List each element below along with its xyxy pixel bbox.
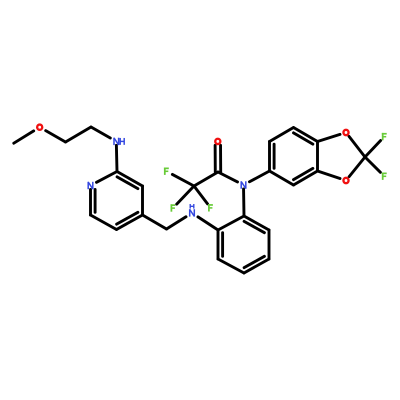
bond NH-phenyl C2 xyxy=(198,217,218,230)
double bond pyridine N1=C6 xyxy=(89,189,92,215)
bond carbonyl C-CF3 carbon xyxy=(194,172,218,186)
double bond pyridine N1=C6 (inner line) xyxy=(94,189,97,212)
atom N of NH (aniline) xyxy=(189,209,191,216)
atom N of NH (methoxyethylamino) xyxy=(113,138,115,145)
bond O-CF2 (dioxole upper) xyxy=(349,136,365,157)
bond phenyl C3-C4 xyxy=(218,259,244,273)
atom F (CF3 lower right) xyxy=(208,204,210,211)
bond CF2-F (lower) xyxy=(365,157,380,172)
double bond C=O carbonyl (line 1) xyxy=(219,145,222,172)
bond CH2-NH xyxy=(91,127,110,138)
bond O-C3a (dioxole lower) xyxy=(318,171,341,179)
double bond phenyl C4=C5 xyxy=(244,259,269,273)
double bond C=O carbonyl (line 2) xyxy=(214,145,217,172)
bond phenyl C5-C6 xyxy=(268,230,271,259)
double bond benzodioxole C3a=C4 (inner line) xyxy=(294,168,313,179)
double bond benzodioxole C5=C6 (inner line) xyxy=(273,144,276,168)
double bond benzodioxole C7=C7a xyxy=(294,128,318,142)
atom H of NH (methoxyethylamino) xyxy=(119,138,121,145)
atom F (CF3 lower left) xyxy=(170,204,172,211)
bond phenyl C1-amide N xyxy=(242,189,245,216)
bond pyridine C4-CH2 bridge xyxy=(143,215,167,229)
double bond pyridine C4=C5 (inner line) xyxy=(117,212,138,224)
double bond benzodioxole C5=C6 xyxy=(268,142,271,172)
double bond phenyl C6=C1 (inner line) xyxy=(244,221,264,232)
atom F (CF3 upper left) xyxy=(164,168,166,175)
atom N (amide nitrogen) xyxy=(240,181,242,188)
atom O (dioxole lower oxygen) xyxy=(343,178,348,183)
bond CH2-NH (aniline) xyxy=(167,217,187,229)
bond amide N-benzodioxole C5 xyxy=(250,171,270,182)
atom F (difluoro upper) xyxy=(382,133,384,140)
double bond phenyl C4=C5 (inner line) xyxy=(244,256,264,267)
double bond phenyl C2=C3 (inner line) xyxy=(221,233,224,257)
atom O (carbonyl oxygen) xyxy=(215,139,220,144)
bond CH3-O (methyl to ether oxygen) xyxy=(14,131,34,143)
bond benzodioxole C7a-C3a xyxy=(316,142,319,172)
double bond phenyl C6=C1 xyxy=(244,216,269,230)
atom F (difluoro lower) xyxy=(382,173,384,180)
atom N (pyridine ring nitrogen) xyxy=(87,182,89,189)
double bond pyridine C2=C3 (inner line) xyxy=(117,177,138,189)
bond C-F (CF3 upper left) xyxy=(172,174,194,186)
double bond benzodioxole C3a=C4 xyxy=(294,171,318,185)
bond phenyl C1-C2 xyxy=(218,216,244,230)
bond O-CH2 xyxy=(46,131,66,142)
double bond benzodioxole C7=C7a (inner line) xyxy=(294,133,313,144)
bond pyridine C5-C6 xyxy=(91,215,117,230)
double bond phenyl C2=C3 xyxy=(217,230,220,259)
bond C-F (CF3 lower left) xyxy=(177,186,194,204)
bond benzodioxole C4-C5 xyxy=(270,171,294,185)
atom O (dioxole upper oxygen) xyxy=(343,130,348,135)
bond CH2-CH2 xyxy=(66,127,92,142)
double bond pyridine C2=C3 xyxy=(117,172,143,187)
bond C-F (CF3 lower right) xyxy=(194,186,208,204)
bond NH-pyridine C2 xyxy=(115,145,119,171)
bond benzodioxole C6-C7 xyxy=(270,128,294,142)
bond pyridine N1-C2 xyxy=(97,172,118,183)
bond CF2-F (upper) xyxy=(365,141,381,158)
atom O (ether oxygen) xyxy=(37,125,42,130)
double bond pyridine C4=C5 xyxy=(117,215,143,230)
atom H of NH (aniline, above N) xyxy=(189,204,191,209)
bond CF2-O (dioxole lower) xyxy=(349,157,365,177)
bond pyridine C3-C4 xyxy=(141,186,144,215)
bond C7a-O (dioxole upper) xyxy=(318,134,341,141)
bond amide N-carbonyl C xyxy=(218,172,238,182)
